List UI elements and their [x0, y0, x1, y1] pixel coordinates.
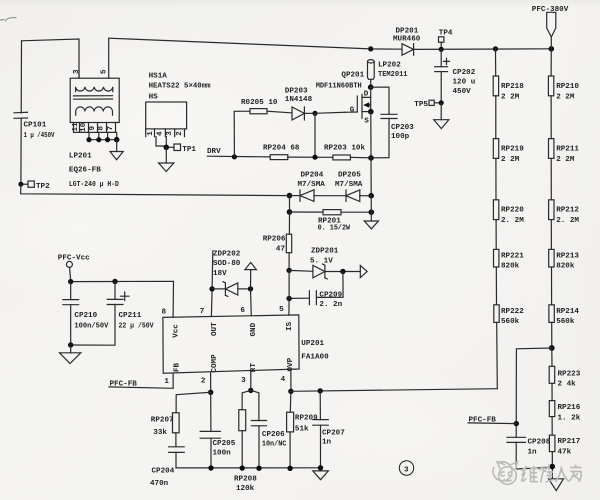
svg-text:IS: IS [286, 321, 294, 331]
wire [70, 267, 115, 281]
svg-text:2. 2M: 2. 2M [556, 217, 579, 225]
wire [551, 383, 553, 400]
ground [159, 163, 174, 172]
svg-text:S: S [364, 118, 369, 126]
bottom bus [176, 467, 321, 469]
svg-text:RP208: RP208 [234, 475, 257, 483]
svg-text:2: 2 [176, 131, 184, 136]
svg-text:CP101: CP101 [24, 121, 47, 129]
svg-text:3: 3 [73, 69, 81, 74]
svg-text:MUR460: MUR460 [393, 35, 421, 43]
wire pin8 [115, 281, 174, 317]
resistor RP208 [239, 410, 246, 431]
ground [434, 120, 449, 129]
svg-text:OVP: OVP [287, 357, 295, 371]
watermark [493, 462, 582, 485]
heatsink HS1A [146, 102, 187, 137]
node S [368, 109, 374, 115]
svg-text:9: 9 [89, 126, 97, 131]
svg-text:1N4148: 1N4148 [285, 96, 313, 104]
node [164, 145, 170, 151]
resistor RP204 [270, 155, 288, 160]
node [368, 193, 374, 199]
wire [341, 211, 371, 213]
svg-text:RP216: RP216 [558, 404, 581, 412]
svg-text:2 2M: 2 2M [556, 93, 575, 101]
svg-text:2. 2n: 2. 2n [319, 301, 342, 309]
node [96, 137, 101, 142]
diode DP203 [292, 107, 304, 120]
wire [325, 271, 360, 273]
svg-text:OUT: OUT [211, 322, 219, 336]
capacitor CP101 [14, 112, 28, 183]
wire PFC-FB [468, 422, 516, 425]
node [240, 465, 245, 470]
svg-text:TEM2011: TEM2011 [378, 71, 408, 79]
svg-text:5. 1V: 5. 1V [310, 257, 333, 265]
svg-text:PFC-FB: PFC-FB [469, 416, 497, 424]
svg-text:33k: 33k [153, 429, 167, 437]
svg-text:LP201: LP201 [69, 152, 92, 160]
wire [550, 220, 552, 250]
wire pin3 [250, 372, 252, 391]
svg-text:820k: 820k [556, 263, 575, 271]
transformer pin row [74, 123, 117, 140]
node [439, 100, 444, 105]
svg-text:3: 3 [241, 377, 246, 385]
op-amp U1 IC UP201 box [163, 315, 299, 373]
svg-text:2. 2M: 2. 2M [501, 217, 524, 225]
wire [495, 96, 497, 139]
svg-text:5: 5 [279, 306, 284, 314]
wire [156, 137, 166, 146]
wire [267, 111, 292, 113]
resistor RP210 [548, 76, 553, 96]
node [286, 296, 291, 301]
node PFC-FB [514, 421, 519, 426]
test point TP1 [169, 144, 181, 151]
wire [288, 212, 290, 234]
svg-text:CP206: CP206 [262, 431, 285, 439]
svg-text:R0205 10: R0205 10 [241, 99, 278, 107]
resistor RP219 [493, 139, 498, 159]
svg-text:ZDP201: ZDP201 [311, 247, 339, 255]
svg-text:TP1: TP1 [182, 146, 196, 154]
node [256, 466, 261, 471]
capacitor CP203 [371, 87, 397, 158]
node [287, 209, 293, 215]
svg-text:4: 4 [156, 131, 164, 136]
svg-text:100n: 100n [213, 449, 232, 457]
left chain wire [495, 49, 497, 76]
right chain wire [550, 49, 552, 76]
svg-text:120 u: 120 u [453, 79, 476, 87]
wire [495, 267, 497, 305]
wire pin5 [288, 270, 290, 315]
svg-text:COMP: COMP [211, 354, 219, 373]
wire [318, 272, 344, 298]
test point TP5 [429, 100, 439, 105]
zener ZDP201 [313, 264, 327, 279]
svg-text:RP206: RP206 [263, 236, 286, 244]
ground [110, 152, 123, 160]
resistor RP221 [494, 249, 499, 267]
wire branch to CP208 [516, 348, 552, 437]
node [368, 46, 373, 51]
svg-text:UP201: UP201 [301, 340, 324, 348]
wire [551, 417, 553, 436]
svg-text:RP203 10k: RP203 10k [324, 144, 365, 152]
svg-text:DP201: DP201 [396, 27, 419, 35]
wire [116, 140, 118, 152]
node [549, 345, 555, 351]
wire [251, 390, 259, 420]
resistor RP201 [323, 210, 341, 215]
wire [234, 111, 250, 157]
svg-text:HS: HS [149, 93, 159, 101]
node [114, 137, 120, 143]
svg-text:FB: FB [173, 362, 181, 372]
node [369, 209, 375, 215]
svg-text:6: 6 [240, 307, 245, 315]
ground [549, 479, 564, 491]
wire [242, 390, 251, 409]
svg-text:0. 15/2W: 0. 15/2W [318, 225, 351, 233]
resistor RP209 [287, 412, 294, 432]
wire [551, 322, 553, 348]
svg-text:3: 3 [404, 467, 409, 475]
wire gate [315, 112, 345, 113]
svg-text:RP218: RP218 [501, 83, 524, 91]
svg-text:RP204 68: RP204 68 [263, 144, 300, 152]
node [318, 465, 323, 470]
node D [368, 84, 374, 90]
svg-text:TP2: TP2 [36, 183, 50, 191]
diode DP201 [402, 44, 414, 56]
wire [290, 211, 324, 213]
svg-text:DP203: DP203 [285, 87, 308, 95]
resistor RP206 [286, 234, 291, 253]
inductor LP202 [368, 60, 375, 87]
zener ZDP202 [212, 282, 250, 297]
svg-text:1n: 1n [322, 438, 332, 446]
svg-text:3: 3 [166, 131, 174, 136]
wire [496, 322, 499, 388]
wire pin7 [211, 251, 212, 317]
wire [314, 195, 346, 197]
svg-text:HS1A: HS1A [149, 72, 168, 80]
svg-text:TP5: TP5 [414, 101, 428, 109]
node [86, 137, 91, 142]
wire [370, 158, 372, 196]
svg-text:RP210: RP210 [556, 83, 579, 91]
resistor RP207 [173, 413, 180, 433]
node [209, 286, 214, 291]
arrow up [245, 262, 257, 269]
transformer LP201 [70, 78, 119, 122]
wire PFC-FB to pin1 [109, 373, 173, 388]
svg-text:SOD-80: SOD-80 [213, 260, 241, 268]
svg-text:RP220: RP220 [501, 207, 524, 215]
svg-text:1: 1 [147, 131, 155, 136]
resistor RP220 [493, 200, 498, 220]
resistor RP217 [549, 435, 555, 452]
wire [550, 96, 552, 139]
wire [314, 113, 316, 157]
svg-text:LGT-240 μ H-D: LGT-240 μ H-D [69, 181, 119, 189]
capacitor CP207 [313, 420, 329, 468]
svg-text:RP211: RP211 [556, 145, 579, 153]
node [550, 464, 556, 470]
svg-text:11: 11 [72, 122, 80, 132]
svg-text:CP205: CP205 [213, 440, 236, 448]
capacitor CP210 [63, 282, 79, 345]
wire [175, 433, 177, 447]
node [439, 47, 444, 52]
svg-text:RT: RT [250, 363, 258, 373]
svg-text:RP221: RP221 [501, 253, 524, 261]
svg-text:QP201: QP201 [341, 71, 364, 79]
svg-text:RP213: RP213 [556, 253, 579, 261]
svg-text:Vcc: Vcc [172, 324, 180, 338]
page number 3 [399, 461, 413, 475]
node [248, 286, 253, 291]
node [208, 390, 213, 395]
svg-text:2 2M: 2 2M [501, 156, 520, 164]
svg-text:CP211: CP211 [119, 312, 142, 320]
wire [289, 269, 313, 272]
svg-text:RP217: RP217 [558, 438, 581, 446]
wire [370, 196, 372, 221]
wire DRV [207, 155, 270, 158]
svg-text:RP222: RP222 [501, 308, 524, 316]
svg-text:M7/SMA: M7/SMA [335, 181, 363, 189]
wire [289, 432, 291, 468]
wire [22, 39, 80, 77]
wire [176, 392, 211, 413]
svg-text:PFC-380V: PFC-380V [532, 6, 569, 14]
svg-text:100p: 100p [391, 133, 410, 141]
resistor RP223 [549, 366, 555, 383]
svg-text:G: G [350, 107, 355, 115]
svg-text:RP214: RP214 [556, 308, 579, 316]
capacitor CP204 [169, 447, 185, 468]
svg-text:560k: 560k [556, 318, 575, 326]
svg-text:RP223: RP223 [558, 370, 581, 378]
svg-text:8: 8 [162, 309, 167, 317]
svg-text:CP210: CP210 [74, 312, 97, 320]
ground [364, 221, 378, 229]
svg-text:2: 2 [201, 377, 206, 385]
pin 5 [108, 38, 110, 78]
arrow out [360, 265, 367, 277]
svg-text:8: 8 [98, 126, 106, 131]
node [287, 466, 292, 471]
capacitor CP205 [200, 431, 220, 468]
svg-text:7: 7 [200, 308, 205, 316]
svg-text:51k: 51k [295, 425, 309, 433]
node [248, 388, 253, 393]
svg-text:DRV: DRV [207, 148, 221, 156]
wire [210, 392, 212, 431]
svg-text:47: 47 [276, 245, 286, 253]
resistor RP218 [493, 76, 498, 96]
wire [551, 348, 553, 366]
svg-text:D: D [364, 91, 369, 99]
svg-text:MDF11N60BTH: MDF11N60BTH [316, 83, 362, 91]
svg-text:RP207: RP207 [151, 416, 174, 424]
svg-text:2 2M: 2 2M [556, 156, 575, 164]
svg-text:CP203: CP203 [391, 124, 414, 132]
svg-text:RP209: RP209 [295, 415, 318, 423]
svg-text:PFC-Vcc: PFC-Vcc [58, 254, 90, 262]
node G [312, 111, 317, 116]
svg-text:18V: 18V [213, 270, 227, 278]
wire pin2 [210, 373, 212, 392]
svg-text:CP204: CP204 [152, 467, 175, 475]
svg-text:CP202: CP202 [453, 69, 476, 77]
svg-text:120k: 120k [236, 485, 255, 493]
svg-text:RP219: RP219 [501, 145, 524, 153]
wire pin6 down [250, 289, 253, 316]
svg-text:DP204: DP204 [301, 171, 324, 179]
node [105, 137, 110, 142]
resistor R0205 [250, 109, 267, 114]
wire [304, 112, 315, 114]
transistor QP201 [345, 87, 371, 118]
svg-text:47k: 47k [558, 449, 572, 457]
wire [21, 184, 290, 195]
svg-text:470n: 470n [150, 480, 169, 488]
wire [414, 48, 552, 51]
svg-text:CP207: CP207 [322, 429, 345, 437]
ground [60, 353, 81, 364]
svg-text:10: 10 [80, 122, 88, 132]
svg-text:7: 7 [107, 126, 115, 131]
node [232, 154, 237, 159]
resistor RP211 [549, 139, 554, 159]
svg-text:ZDP202: ZDP202 [213, 250, 241, 258]
wire pin4 to chain [291, 389, 497, 392]
node [368, 155, 374, 161]
svg-text:CP208: CP208 [528, 438, 551, 446]
wire [551, 452, 553, 479]
svg-text:RP212: RP212 [556, 207, 579, 215]
wire [350, 156, 371, 158]
node [549, 46, 555, 52]
diode DP205 [346, 190, 371, 202]
svg-text:820k: 820k [501, 263, 520, 271]
svg-text:4: 4 [281, 376, 286, 384]
capacitor CP202 [435, 49, 450, 102]
resistor RP203 [333, 155, 351, 160]
wire [70, 345, 72, 353]
capacitor CP209 [289, 291, 316, 305]
svg-text:TP4: TP4 [439, 29, 453, 37]
node TP2 [18, 182, 23, 187]
node [340, 269, 345, 274]
resistor RP222 [494, 305, 499, 323]
svg-text:1n: 1n [528, 448, 538, 456]
svg-text:CP209: CP209 [319, 292, 342, 300]
svg-text:PFC-FB: PFC-FB [110, 380, 138, 388]
pencil mark [0, 18, 16, 21]
node [68, 342, 73, 347]
node [68, 279, 73, 284]
svg-text:M7/SMA: M7/SMA [298, 181, 326, 189]
wire top to PFC-380V [109, 38, 402, 49]
resistor RP212 [549, 200, 554, 220]
svg-text:2 4k: 2 4k [558, 381, 577, 389]
pin PFC-Vcc [66, 261, 72, 267]
node [287, 193, 293, 199]
capacitor CP208 [507, 437, 552, 469]
svg-text:100n/50V: 100n/50V [74, 323, 108, 331]
diode DP204 [290, 190, 315, 202]
svg-text:1 μ /450V: 1 μ /450V [24, 132, 55, 140]
svg-text:1. 2k: 1. 2k [558, 415, 581, 423]
resistor RP216 [549, 401, 555, 417]
svg-text:560k: 560k [501, 318, 520, 326]
wire [289, 391, 292, 412]
node [288, 389, 293, 394]
svg-text:DP205: DP205 [338, 171, 361, 179]
wire pin4 [290, 371, 292, 392]
pin 3 [78, 71, 80, 79]
wire [165, 147, 167, 163]
svg-text:2 2M: 2 2M [501, 93, 520, 101]
node [286, 268, 291, 273]
wire [550, 158, 552, 199]
svg-text:450V: 450V [453, 88, 472, 96]
wire [288, 253, 290, 271]
wire [551, 267, 553, 305]
wire [440, 103, 442, 120]
node [312, 155, 317, 160]
svg-text:22 μ /50V: 22 μ /50V [119, 323, 154, 331]
wire [289, 196, 291, 212]
wire [20, 41, 22, 113]
svg-text:EQ26-FB: EQ26-FB [69, 166, 101, 174]
capacitor CP211 [71, 282, 129, 346]
node [112, 279, 117, 284]
resistor RP213 [549, 249, 554, 267]
svg-text:1: 1 [164, 378, 169, 386]
node [493, 46, 498, 51]
node [208, 465, 213, 470]
svg-text:FA1A00: FA1A00 [301, 353, 329, 361]
ground [313, 471, 329, 480]
wire [241, 431, 243, 468]
resistor RP214 [549, 305, 554, 323]
capacitor CP206 [251, 421, 266, 469]
node [318, 388, 323, 393]
wire source column [370, 112, 372, 158]
wire [288, 156, 333, 158]
wire [495, 158, 497, 199]
svg-text:10n/NC: 10n/NC [262, 441, 287, 449]
test point TP4 [439, 37, 444, 50]
svg-text:LP202: LP202 [378, 62, 401, 70]
svg-text:5: 5 [100, 69, 108, 74]
wire [495, 220, 497, 250]
wire pin6 [250, 270, 252, 289]
wire [319, 391, 321, 420]
connector PFC-380V [547, 12, 556, 49]
test point TP2 [23, 181, 34, 187]
svg-text:HEATS22 5×40mm: HEATS22 5×40mm [149, 83, 211, 91]
svg-text:GND: GND [250, 322, 258, 336]
